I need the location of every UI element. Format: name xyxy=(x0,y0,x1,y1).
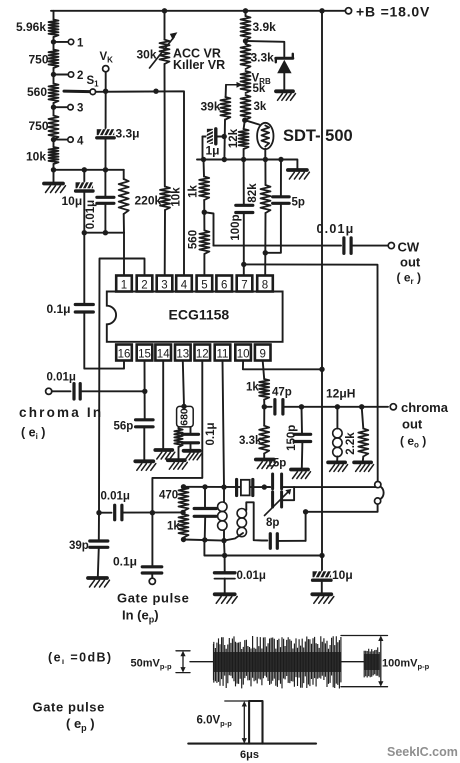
svg-text:SeekIC.com: SeekIC.com xyxy=(387,745,458,759)
resistor 3k xyxy=(241,95,267,120)
waveform burst small xyxy=(364,647,380,677)
capacitor 47p xyxy=(264,387,301,415)
resistor 750 lower xyxy=(29,116,59,140)
capacitor 1u electrolytic xyxy=(203,129,224,160)
svg-text:Gate pulse: Gate pulse xyxy=(117,591,189,606)
ground 12uH xyxy=(328,462,348,471)
svg-text:47p: 47p xyxy=(272,387,292,399)
svg-text:4: 4 xyxy=(77,135,84,147)
wire pin12 to gate cap xyxy=(152,361,202,566)
terminal gate pulse in xyxy=(117,578,189,624)
svg-text:3k: 3k xyxy=(254,101,267,113)
pin 1 xyxy=(116,276,132,292)
label ei 0dB xyxy=(48,651,113,667)
svg-text:30k: 30k xyxy=(137,48,157,62)
ground 10u bottom xyxy=(312,594,334,603)
wire +B top rail xyxy=(51,10,347,12)
pin 4 xyxy=(176,276,192,292)
ground 3.3k xyxy=(256,460,276,469)
node 8p riser xyxy=(303,509,308,514)
svg-text:( ei ): ( ei ) xyxy=(21,426,45,442)
svg-text:out: out xyxy=(400,255,421,270)
resistor 1k pin9 xyxy=(246,361,269,400)
capacitor 3.3u electrolytic xyxy=(97,127,140,141)
wire wiper to 39k xyxy=(225,85,227,97)
waveform gate pulse xyxy=(188,701,316,761)
svg-text:5: 5 xyxy=(201,279,207,291)
capacitor 39p xyxy=(69,513,108,578)
wire bottom node horizontal xyxy=(54,169,124,171)
wire ACC VR to 10k xyxy=(164,64,166,187)
capacitor 0.01u upper left xyxy=(85,170,114,233)
resistor 220k xyxy=(119,170,162,233)
wire ladder to bottom node xyxy=(53,164,55,170)
node wire SDT-82k xyxy=(263,157,268,162)
node bottom rail 0.01u xyxy=(222,553,227,558)
wire crystal node horizontal xyxy=(184,486,271,488)
svg-text:1k: 1k xyxy=(246,382,259,394)
label 50mVp-p xyxy=(131,658,172,672)
svg-text:0.01μ: 0.01μ xyxy=(47,372,76,384)
pin 13 xyxy=(175,345,191,361)
svg-text:0.01μ: 0.01μ xyxy=(237,570,266,582)
capacitor 56p xyxy=(114,420,154,461)
node 3.9k-3.3k junction xyxy=(243,38,248,43)
pin 16 xyxy=(116,345,132,361)
inductor L2 xyxy=(224,502,262,540)
node wire 39k xyxy=(222,157,227,162)
resistor 12k xyxy=(228,120,249,159)
wire ladder 4-bottom xyxy=(53,140,55,148)
node 10u junction xyxy=(82,167,87,172)
switch S1 xyxy=(64,75,99,95)
pin 11 xyxy=(215,345,231,361)
node wire 1k top xyxy=(201,157,206,162)
node S1 wire dot xyxy=(153,89,158,94)
ground 680 resistor xyxy=(168,460,188,469)
label 100mVp-p xyxy=(382,658,430,672)
node 0.01u top tap xyxy=(82,230,87,235)
watermark SeekIC.com xyxy=(387,745,458,759)
node Vk S1 junction xyxy=(103,89,108,94)
node tap 3 xyxy=(51,103,84,115)
wire 560 to pin5 xyxy=(203,254,205,276)
resistor 10k ladder xyxy=(26,147,59,164)
svg-text:In (ep): In (ep) xyxy=(122,608,159,625)
terminal +B=18.0V xyxy=(345,4,430,20)
resistor 2.2k xyxy=(345,407,368,462)
terminal Vk xyxy=(100,51,114,72)
ground 0.1u pin13 xyxy=(184,451,203,460)
wire 3.3u to bottom node xyxy=(105,139,107,170)
svg-text:Gate pulse: Gate pulse xyxy=(33,700,105,715)
resistor 3.3k pin9 xyxy=(239,407,269,459)
node ladder bottom xyxy=(51,167,56,172)
svg-text:750: 750 xyxy=(29,119,49,133)
ground zener xyxy=(276,91,296,100)
resistor 560 series xyxy=(188,212,210,254)
svg-text:750: 750 xyxy=(29,53,49,67)
label gate pulse waveform xyxy=(33,700,105,734)
node Vk junction ladder wire xyxy=(103,167,108,172)
resistor 1k upper xyxy=(188,160,210,201)
wire ladder column top xyxy=(53,11,55,20)
capacitor 0.1u pin13 xyxy=(183,422,218,450)
svg-text:82k: 82k xyxy=(247,183,259,203)
node tap 1 xyxy=(51,37,84,49)
node 2.2k xyxy=(359,404,364,409)
wire burst baseline right xyxy=(341,661,364,663)
ground main node xyxy=(288,170,310,179)
ground 0.01u bottom xyxy=(215,594,238,603)
svg-text:5.96k: 5.96k xyxy=(16,20,46,34)
node 15p left xyxy=(262,484,267,489)
svg-text:680: 680 xyxy=(179,408,191,426)
wire ladder 3-4 xyxy=(53,103,55,116)
svg-text:3.9k: 3.9k xyxy=(253,20,277,34)
waveform burst xyxy=(214,636,342,689)
inductor 680 boxed xyxy=(177,406,194,427)
svg-text:0.01μ: 0.01μ xyxy=(85,200,97,229)
svg-text:14: 14 xyxy=(157,348,170,360)
crystal X1 xyxy=(237,480,253,496)
svg-text:8: 8 xyxy=(262,279,268,291)
wire ladder 2-3 xyxy=(53,68,55,84)
wire bottom rail xyxy=(204,540,322,556)
svg-text:1: 1 xyxy=(77,37,84,49)
terminal CW out xyxy=(388,240,421,287)
svg-text:6: 6 xyxy=(221,279,227,291)
resistor 1k gate xyxy=(167,514,189,538)
wire 39k to node wire xyxy=(223,120,226,160)
capacitor 10u bottom electrolytic xyxy=(313,556,353,594)
wire ladder 1-2 xyxy=(53,37,55,50)
svg-text:( er ): ( er ) xyxy=(397,271,421,287)
svg-text:chroma In: chroma In xyxy=(19,405,103,420)
resistor 3.3k upper xyxy=(241,44,275,69)
capacitor 0.1u left xyxy=(47,302,94,316)
resistor 39k xyxy=(201,97,231,120)
svg-text:6.0Vp-p: 6.0Vp-p xyxy=(197,715,233,729)
ground 2.2k xyxy=(354,462,374,471)
svg-text:1μ: 1μ xyxy=(206,144,220,158)
node tap 2 xyxy=(51,70,84,82)
node 12uH xyxy=(335,404,340,409)
node pin13 680 xyxy=(181,404,186,409)
wire gate RC bottom xyxy=(184,540,225,541)
pin 8 xyxy=(257,276,273,292)
variable resistor 30k ACC VR Killer VR xyxy=(137,11,226,72)
svg-text:13: 13 xyxy=(176,348,189,360)
svg-text:1k: 1k xyxy=(188,185,200,198)
svg-text:(eı =0dB): (eı =0dB) xyxy=(48,651,113,667)
node 1k-560 junction xyxy=(202,200,207,215)
resistor 470 xyxy=(159,487,189,511)
node chroma in pin15 xyxy=(142,389,147,394)
svg-text:9: 9 xyxy=(259,348,265,360)
svg-text:VK: VK xyxy=(100,51,114,65)
svg-text:12: 12 xyxy=(196,348,209,360)
marker 100mV arrows xyxy=(341,636,388,687)
pin 2 xyxy=(137,276,153,292)
wire chroma out xyxy=(302,406,389,408)
node pin10 +B junction xyxy=(319,367,324,372)
svg-text:4: 4 xyxy=(181,279,188,291)
ground 150p xyxy=(291,470,311,479)
svg-text:( ep ): ( ep ) xyxy=(66,716,95,733)
pin 9 xyxy=(255,345,271,361)
svg-text:5p: 5p xyxy=(292,197,305,209)
wire main node horizontal xyxy=(197,160,297,170)
inductor 12uH xyxy=(326,387,355,463)
svg-text:6μs: 6μs xyxy=(240,749,259,761)
svg-text:39k: 39k xyxy=(201,100,221,114)
node pin8 5p junction xyxy=(263,250,268,255)
node cap022 bottom xyxy=(202,537,207,542)
svg-text:2: 2 xyxy=(141,279,147,291)
node +B junction ACC VR xyxy=(162,8,167,13)
wire 220k node to pin1 xyxy=(123,233,125,276)
capacitor 0.01u bottom xyxy=(215,556,266,594)
svg-text:8p: 8p xyxy=(266,517,279,529)
pin 14 xyxy=(155,345,171,361)
pin 15 xyxy=(137,345,153,361)
svg-text:1: 1 xyxy=(121,279,127,291)
capacitor 0.01u chroma in xyxy=(47,372,145,400)
node 1k bottom xyxy=(181,537,186,542)
wire coil node to rail xyxy=(223,541,226,556)
capacitor 0.022u gate xyxy=(194,487,216,540)
resistor 560 ladder xyxy=(27,84,59,104)
wire Vk down xyxy=(105,72,107,129)
capacitor 8p xyxy=(262,517,306,548)
wire pin11 down xyxy=(223,361,225,487)
diode zener xyxy=(276,54,293,90)
capacitor 10u electrolytic xyxy=(62,170,95,208)
svg-text:11: 11 xyxy=(217,348,229,360)
svg-text:560: 560 xyxy=(27,85,47,99)
wire 0.1u to pin16 xyxy=(84,312,124,369)
ground 56p xyxy=(135,461,156,470)
label 6.0Vp-p xyxy=(197,715,233,729)
svg-text:56p: 56p xyxy=(114,421,134,433)
wire cap to CW terminal xyxy=(351,245,388,247)
svg-text:Kıller VR: Kıller VR xyxy=(173,58,225,72)
pin 6 xyxy=(216,276,232,292)
node 0.01u bottom xyxy=(103,230,108,235)
svg-text:10μ: 10μ xyxy=(332,568,353,582)
svg-text:470: 470 xyxy=(159,490,178,502)
pin 7 xyxy=(237,276,253,292)
svg-text:3: 3 xyxy=(161,279,167,291)
wire to zener xyxy=(246,41,285,57)
svg-text:39p: 39p xyxy=(69,540,89,552)
svg-text:100p: 100p xyxy=(230,214,242,240)
svg-text:10k: 10k xyxy=(26,150,46,164)
pin 12 xyxy=(195,345,211,361)
wire CW out xyxy=(214,245,342,247)
svg-text:7: 7 xyxy=(241,279,247,291)
op-amp IC ECG1158 body xyxy=(107,292,283,342)
resistor 680 xyxy=(174,427,182,460)
wire 8p to switch lower xyxy=(306,504,378,541)
resistor 3.9k xyxy=(241,11,277,40)
node wire 12k-100p xyxy=(241,157,246,162)
wire node to 220k bottom xyxy=(84,232,124,234)
resistor 750 upper xyxy=(29,50,59,69)
svg-text:12k: 12k xyxy=(228,128,240,148)
capacitor 0.01u CW xyxy=(317,222,355,253)
svg-text:0.01μ: 0.01μ xyxy=(101,491,130,503)
node +B junction 3.9k xyxy=(243,8,248,13)
wire 10k to pin3 xyxy=(164,210,166,276)
wire 15p to switch xyxy=(294,486,375,488)
pin 10 xyxy=(235,345,251,361)
svg-text:CW: CW xyxy=(398,240,420,255)
wire 10u to 0.1u xyxy=(83,192,85,304)
svg-text:16: 16 xyxy=(118,348,131,360)
marker 50mV arrows xyxy=(176,651,214,673)
node +B junction right branch xyxy=(319,8,324,13)
wire +B vertical branch xyxy=(321,11,323,556)
ground 39p xyxy=(88,578,110,587)
node wire 5p xyxy=(278,157,283,162)
wire pin15 down xyxy=(144,361,146,419)
svg-text:15: 15 xyxy=(138,348,151,360)
ground pin14 xyxy=(155,450,175,459)
capacitor 0.01u gate xyxy=(99,491,183,520)
resistor 10k series xyxy=(160,187,182,211)
resistor 82k xyxy=(247,160,271,276)
oscillator coil SDT-500 xyxy=(245,120,353,159)
wire pin7 to switch column xyxy=(244,264,378,481)
svg-text:3.3k: 3.3k xyxy=(239,435,262,447)
svg-text:10μ: 10μ xyxy=(62,194,83,208)
capacitor 15p trimmer xyxy=(264,458,294,516)
node cap022 top xyxy=(202,484,207,489)
svg-text:0.1μ: 0.1μ xyxy=(113,555,137,569)
svg-text:560: 560 xyxy=(188,230,200,249)
wire pin10 to +B xyxy=(243,361,322,370)
node pin7 switch wire xyxy=(241,262,246,267)
svg-text:S1: S1 xyxy=(87,75,100,89)
terminal chroma out xyxy=(390,400,449,450)
wire pin14 to ground xyxy=(162,361,164,450)
ground ladder xyxy=(44,170,66,193)
wire junction to CW wire xyxy=(204,212,213,245)
node 1k 47p 3.3k xyxy=(262,400,267,410)
capacitor 150p xyxy=(286,407,311,469)
svg-text:3: 3 xyxy=(77,103,83,115)
wire S1 to pin4 column xyxy=(96,91,184,275)
node bottom rail 10u xyxy=(319,553,324,558)
node 470 1k junction xyxy=(180,510,185,515)
svg-text:12μH: 12μH xyxy=(326,387,355,401)
node tap 4 xyxy=(51,135,84,147)
svg-text:3.3μ: 3.3μ xyxy=(116,127,140,141)
pin 5 xyxy=(197,276,213,292)
svg-text:100mVp-p: 100mVp-p xyxy=(382,658,430,672)
svg-text:150p: 150p xyxy=(286,425,298,451)
svg-text:3.3k: 3.3k xyxy=(251,51,275,65)
svg-text:5k: 5k xyxy=(253,83,266,95)
svg-text:ECG1158: ECG1158 xyxy=(169,307,230,323)
svg-text:50mVp-p: 50mVp-p xyxy=(131,658,172,672)
svg-text:SDT- 500: SDT- 500 xyxy=(283,127,353,145)
node gate wire junction xyxy=(150,510,155,515)
svg-text:( eo ): ( eo ) xyxy=(400,434,426,450)
svg-text:+B =18.0V: +B =18.0V xyxy=(356,4,430,20)
svg-text:0.1μ: 0.1μ xyxy=(47,302,71,316)
svg-text:1k: 1k xyxy=(167,521,180,533)
node 3k bottom xyxy=(242,118,247,123)
svg-text:out: out xyxy=(402,416,423,431)
node 150p xyxy=(299,404,304,409)
inductor L1 pin11 xyxy=(218,487,227,540)
svg-text:2.2k: 2.2k xyxy=(345,432,357,455)
capacitor 100p xyxy=(230,160,253,276)
svg-text:10k: 10k xyxy=(170,187,182,207)
svg-text:chroma: chroma xyxy=(401,400,449,415)
node pin2 gate junction xyxy=(96,510,101,515)
pin 3 xyxy=(157,276,173,292)
svg-text:220k: 220k xyxy=(135,194,162,208)
node pin11 crystal wire xyxy=(221,484,226,489)
svg-text:0.1μ: 0.1μ xyxy=(205,422,217,445)
switch chroma select xyxy=(375,482,384,505)
node coil bottom xyxy=(221,538,226,543)
resistor 5.96k xyxy=(16,20,59,38)
capacitor 5p xyxy=(265,160,305,253)
wire pin2 loop xyxy=(99,259,145,513)
capacitor 0.1u gate xyxy=(113,555,162,579)
node 470 top xyxy=(181,484,186,489)
wire pin13 down xyxy=(183,361,184,407)
svg-text:10: 10 xyxy=(237,348,250,360)
terminal chroma in xyxy=(19,388,103,441)
potentiometer VRB 5k xyxy=(226,71,271,95)
node 1u to 39k line xyxy=(222,134,227,139)
svg-text:2: 2 xyxy=(77,70,83,82)
